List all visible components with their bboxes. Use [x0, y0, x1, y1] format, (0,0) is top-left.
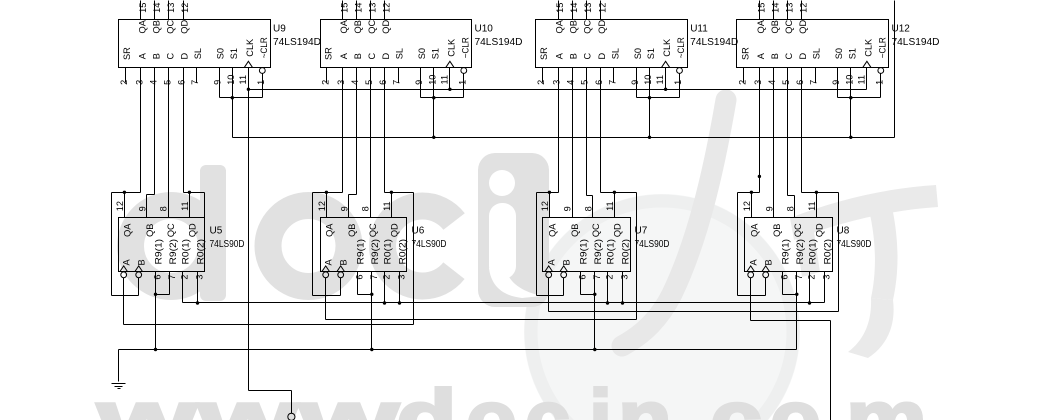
junction U10.S1: [432, 136, 435, 139]
svg-text:74LS194D: 74LS194D: [273, 37, 321, 48]
U8 A input edge wedge: [747, 266, 755, 272]
svg-text:B: B: [137, 259, 147, 265]
svg-text:1: 1: [673, 80, 683, 85]
svg-text:QD: QD: [389, 223, 399, 237]
wire U11.D down: [600, 68, 602, 193]
U7 A clock input wire down: [548, 278, 550, 312]
U6 A input bubble: [323, 272, 329, 278]
svg-text:QB: QB: [347, 224, 357, 237]
U6 pin 12 stub: [326, 193, 328, 218]
svg-text:SR: SR: [323, 47, 333, 60]
U10 CLK edge wedge: [446, 61, 454, 67]
wire QD line: [184, 192, 205, 194]
svg-text:QD: QD: [381, 20, 391, 34]
svg-text:A: A: [756, 52, 766, 59]
U6 B input edge wedge: [337, 266, 345, 272]
U9 junction S1/tie: [231, 96, 234, 99]
svg-text:o: o: [770, 373, 821, 420]
wire U12.D down: [801, 68, 803, 193]
svg-text:SR: SR: [122, 47, 132, 60]
U11 body: [536, 20, 688, 68]
svg-text:C: C: [583, 52, 593, 59]
svg-text:QA: QA: [749, 223, 759, 237]
U9 pin 12 QD stub: [183, 1, 185, 20]
svg-text:U9: U9: [273, 24, 286, 35]
svg-text:U5: U5: [210, 226, 223, 237]
U10 S1 pin 10 wire: [433, 68, 435, 138]
svg-text:7: 7: [607, 80, 617, 85]
svg-text:2: 2: [180, 275, 190, 280]
U6 A clock input wire down: [325, 278, 327, 320]
wire to B input: [112, 295, 139, 297]
svg-text:6: 6: [355, 275, 365, 280]
U11 SL pin 7 stub: [613, 68, 615, 83]
svg-text:S1: S1: [430, 48, 440, 59]
junction U5 R9 tie: [154, 293, 157, 296]
svg-text:74LS90D: 74LS90D: [412, 239, 447, 250]
svg-text:S0: S0: [834, 48, 844, 59]
wire R9 bus: [119, 349, 797, 351]
svg-text:R9(2): R9(2): [593, 239, 603, 265]
svg-text:QB: QB: [569, 20, 579, 33]
ground symbol: [112, 383, 126, 385]
U10 SL pin 7 stub: [398, 68, 400, 83]
U5 R0(2) pin 3 stub: [197, 272, 199, 303]
junction U7 R9 tie: [593, 293, 596, 296]
svg-text:U11: U11: [690, 24, 708, 35]
U5 R0(1) pin 2 stub: [182, 272, 184, 303]
svg-text:SL: SL: [395, 48, 405, 59]
svg-text:R9(2): R9(2): [168, 239, 178, 265]
U12 S1 pin 10 wire: [850, 68, 852, 138]
wire QA line: [537, 192, 559, 194]
wire U10.D down: [384, 68, 386, 193]
U6 R0(1) pin 2 stub: [384, 272, 386, 303]
U9 SR pin 2 stub: [125, 68, 127, 83]
U9 CLK long wire down to clock node: [248, 68, 250, 391]
svg-text:~CLR: ~CLR: [877, 37, 887, 58]
wire R0 bus: [183, 302, 825, 304]
U7 R0(2) pin 3 stub: [622, 272, 624, 303]
svg-text:QC: QC: [583, 20, 593, 34]
junction U7 R9 at bus: [593, 348, 596, 351]
U11 pin 14 QB stub: [572, 1, 574, 20]
wire U12.C down: [787, 68, 789, 196]
svg-text:2: 2: [737, 80, 747, 85]
U10 ~CLR bubble: [461, 68, 467, 74]
junction U8 pin 11: [815, 191, 818, 194]
U12 pin 12 QD stub: [801, 1, 803, 20]
svg-text:7: 7: [809, 80, 819, 85]
wire QC jog: [788, 195, 795, 197]
U7 body: [543, 218, 631, 272]
wire U9.D down: [183, 68, 185, 193]
svg-text:~CLR: ~CLR: [259, 37, 269, 58]
svg-text:QB: QB: [145, 224, 155, 237]
svg-text:B: B: [562, 259, 572, 265]
wire QC jog: [587, 195, 593, 197]
svg-text:R0(1): R0(1): [808, 239, 818, 265]
U7 pin 12 stub: [549, 193, 551, 218]
svg-text:B: B: [770, 53, 780, 59]
svg-text:CLK: CLK: [446, 38, 456, 57]
wire cascade U7.A to U8.QD: [549, 311, 839, 313]
svg-text:R0(1): R0(1): [606, 239, 616, 265]
svg-text:7: 7: [369, 275, 379, 280]
wire U10.B down: [356, 68, 358, 195]
U6 R9 tie wire: [358, 294, 372, 296]
U8 R9(2) pin 7 stub: [796, 272, 798, 295]
svg-text:11: 11: [655, 75, 665, 85]
U5 B input wire: [138, 278, 140, 296]
svg-text:7: 7: [392, 80, 402, 85]
junction U5 pin 11: [188, 191, 191, 194]
svg-text:R9(1): R9(1): [579, 239, 589, 265]
svg-text:9: 9: [137, 206, 147, 211]
wire to B input: [537, 295, 564, 297]
svg-text:~CLR: ~CLR: [676, 37, 686, 58]
U11 SR pin 2 stub: [542, 68, 544, 83]
U8 R9 tie wire: [783, 294, 797, 296]
svg-text:QC: QC: [367, 20, 377, 34]
svg-text:9: 9: [213, 80, 223, 85]
svg-text:13: 13: [785, 3, 795, 13]
svg-text:QD: QD: [597, 20, 607, 34]
svg-text:5: 5: [163, 80, 173, 85]
U10 pin 12 QD stub: [384, 1, 386, 20]
svg-text:B: B: [339, 259, 349, 265]
svg-text:U10: U10: [475, 24, 494, 35]
wire U9.B down: [154, 68, 156, 195]
U9 CLK edge wedge: [244, 61, 252, 67]
U10 CLK pin 11 wire: [449, 68, 451, 90]
svg-text:3: 3: [822, 275, 832, 280]
svg-text:7: 7: [794, 275, 804, 280]
U12 pin 14 QB stub: [773, 1, 775, 20]
wire U11.C down: [586, 68, 588, 196]
svg-text:8: 8: [361, 206, 371, 211]
svg-text:C: C: [367, 52, 377, 59]
svg-text:CLK: CLK: [245, 38, 255, 57]
U11 S0 pin 9 wire: [636, 68, 638, 98]
svg-text:12: 12: [799, 3, 809, 13]
wire down to ground: [118, 350, 120, 382]
svg-text:QA: QA: [122, 223, 132, 237]
U5 A input edge wedge: [120, 266, 128, 272]
U8 A input bubble: [748, 272, 754, 278]
U5 B input bubble: [136, 272, 142, 278]
wire U9.A down: [140, 68, 142, 193]
U6 R0(2) pin 3 stub: [399, 272, 401, 303]
U5 body: [119, 218, 205, 272]
wire U6.QD down right side: [413, 193, 415, 325]
U8 R0(1) pin 2 stub: [809, 272, 811, 303]
junction U6 R9 at bus: [370, 348, 373, 351]
U9 S0/S1/~CLR tie wire: [220, 97, 263, 99]
svg-text:SR: SR: [740, 47, 750, 60]
wire U11.B to U7 pin 9: [572, 68, 574, 218]
svg-text:4: 4: [350, 80, 360, 85]
U12 SR pin 2 stub: [743, 68, 745, 83]
svg-text:QB: QB: [570, 224, 580, 237]
U8 R0(2) pin 3 stub: [824, 272, 826, 303]
U12 pin 13 QC stub: [787, 1, 789, 20]
wire clock down to terminal: [291, 391, 293, 414]
junction U10.CLK: [448, 88, 451, 91]
U11 pin 13 QC stub: [586, 1, 588, 20]
wire QA to B down left side: [111, 193, 113, 296]
svg-text:7: 7: [190, 80, 200, 85]
svg-text:8: 8: [159, 206, 169, 211]
U5 pin 9 stub: [146, 195, 148, 218]
U7 pin 8 stub: [592, 196, 594, 218]
U7 R9(2) pin 7 stub: [594, 272, 596, 295]
svg-text:~CLR: ~CLR: [460, 37, 470, 58]
U11 S1 pin 10 wire: [649, 68, 651, 138]
U6 body: [321, 218, 407, 272]
svg-text:R0(1): R0(1): [181, 239, 191, 265]
svg-text:11: 11: [605, 201, 615, 211]
svg-text:3: 3: [552, 80, 562, 85]
junction on U12.A wire: [758, 175, 761, 178]
wire U8.QD down right side: [838, 193, 840, 312]
U6 pin 9 stub: [348, 195, 350, 218]
U12 ~CLR pin 1 wire: [880, 74, 882, 98]
junction U6 pin 11: [390, 191, 393, 194]
U9 ~CLR pin 1 wire: [262, 74, 264, 98]
svg-text:R9(1): R9(1): [356, 239, 366, 265]
wire S1 feedback riser to top edge: [894, 1, 896, 138]
U7 B input wire: [563, 278, 565, 296]
svg-text:B: B: [569, 53, 579, 59]
junction U5 R0(2): [196, 301, 199, 304]
U5 B input edge wedge: [135, 266, 143, 272]
U8 B input wire: [765, 278, 767, 296]
svg-text:S1: S1: [646, 48, 656, 59]
svg-text:QC: QC: [166, 20, 176, 34]
U5 pin 11 stub: [189, 193, 191, 218]
wire cascade U5.A to U6.QD: [124, 324, 414, 326]
U12 S0/S1/~CLR tie wire: [838, 97, 881, 99]
svg-text:QC: QC: [368, 223, 378, 237]
U9 S1 pin 10 wire: [232, 68, 234, 138]
U10 S0 pin 9 wire: [420, 68, 422, 98]
wire U7.QD down right side: [636, 193, 638, 320]
svg-text:9: 9: [630, 80, 640, 85]
svg-text:A: A: [137, 52, 147, 59]
wire U8 clock down off page: [830, 321, 832, 420]
svg-text:QB: QB: [772, 224, 782, 237]
U11 junction S1/tie: [648, 96, 651, 99]
svg-text:QD: QD: [180, 20, 190, 34]
svg-text:2: 2: [605, 275, 615, 280]
svg-text:R0(2): R0(2): [621, 239, 631, 265]
U6 B input wire: [340, 278, 342, 296]
U11 S0/S1/~CLR tie wire: [637, 97, 680, 99]
svg-text:1: 1: [874, 80, 884, 85]
svg-text:QC: QC: [784, 20, 794, 34]
svg-text:QD: QD: [798, 20, 808, 34]
svg-text:A: A: [749, 258, 759, 265]
svg-text:11: 11: [439, 75, 449, 85]
U8 body: [745, 218, 833, 272]
U8 pin 12 stub: [751, 193, 753, 218]
svg-text:SL: SL: [610, 48, 620, 59]
U12 SL pin 7 stub: [815, 68, 817, 83]
svg-text:c: c: [525, 373, 570, 420]
svg-text:R9(1): R9(1): [154, 239, 164, 265]
svg-text:QC: QC: [166, 223, 176, 237]
U9 SL pin 7 stub: [196, 68, 198, 83]
wire QD line: [601, 192, 637, 194]
junction U5 pin 12: [123, 191, 126, 194]
wire QD line: [802, 192, 839, 194]
wire QA line: [112, 192, 141, 194]
U11 ~CLR pin 1 wire: [679, 74, 681, 98]
U8 pin 11 stub: [816, 193, 818, 218]
junction U11.CLK: [664, 88, 667, 91]
svg-text:12: 12: [540, 201, 550, 211]
U8 R9(1) pin 6 stub: [782, 272, 784, 295]
svg-text:12: 12: [317, 201, 327, 211]
svg-text:74LS90D: 74LS90D: [210, 239, 245, 250]
U8 A clock input wire down: [750, 278, 752, 321]
svg-text:C: C: [166, 52, 176, 59]
svg-text:74LS194D: 74LS194D: [475, 37, 523, 48]
svg-text:12: 12: [180, 3, 190, 13]
svg-text:QB: QB: [770, 20, 780, 33]
wire CLK bus: [249, 89, 867, 91]
U7 B input edge wedge: [560, 266, 568, 272]
svg-text:m: m: [846, 373, 927, 420]
svg-text:QD: QD: [612, 223, 622, 237]
svg-text:15: 15: [138, 3, 148, 13]
wire QB jog: [349, 194, 357, 196]
wire S1 bus: [233, 137, 895, 139]
svg-text:S0: S0: [216, 48, 226, 59]
svg-text:3: 3: [397, 275, 407, 280]
junction U8 R9 tie: [795, 293, 798, 296]
svg-text:10: 10: [427, 75, 437, 85]
clock terminal circle: [288, 413, 295, 420]
wire U10.C to U6 pin 8: [370, 68, 372, 218]
wire QD line: [385, 192, 414, 194]
svg-text:B: B: [764, 259, 774, 265]
svg-text:2: 2: [807, 275, 817, 280]
svg-text:5: 5: [781, 80, 791, 85]
U12 CLK edge wedge: [863, 61, 871, 67]
svg-text:9: 9: [339, 206, 349, 211]
svg-text:QC: QC: [793, 223, 803, 237]
svg-text:7: 7: [167, 275, 177, 280]
svg-text:5: 5: [364, 80, 374, 85]
U11 CLK pin 11 wire: [665, 68, 667, 90]
svg-text:n: n: [618, 373, 672, 420]
svg-text:QA: QA: [547, 223, 557, 237]
U11 pin 15 QA stub: [558, 1, 560, 20]
svg-text:14: 14: [771, 3, 781, 13]
svg-text:11: 11: [238, 75, 248, 85]
svg-text:QD: QD: [187, 223, 197, 237]
svg-text:10: 10: [844, 75, 854, 85]
svg-text:1: 1: [256, 80, 266, 85]
svg-text:13: 13: [583, 3, 593, 13]
U9 pin 13 QC stub: [168, 1, 170, 20]
svg-text:QA: QA: [137, 19, 147, 33]
U7 pin 11 stub: [614, 193, 616, 218]
svg-text:d: d: [396, 373, 457, 420]
svg-text:10: 10: [643, 75, 653, 85]
junction U6 R0(1): [383, 301, 386, 304]
svg-text:6: 6: [578, 275, 588, 280]
svg-text:74LS194D: 74LS194D: [690, 37, 738, 48]
U10 SR pin 2 stub: [326, 68, 328, 83]
svg-text:9: 9: [764, 206, 774, 211]
svg-text:9: 9: [831, 80, 841, 85]
svg-text:2: 2: [119, 80, 129, 85]
U5 R9(1) pin 6 stub: [155, 272, 157, 295]
U10 pin 14 QB stub: [356, 1, 358, 20]
U11 CLK edge wedge: [662, 61, 670, 67]
svg-text:14: 14: [152, 3, 162, 13]
wire U8 clock line: [751, 320, 831, 322]
U9 ~CLR bubble: [259, 68, 265, 74]
svg-text:QA: QA: [555, 19, 565, 33]
U5 A clock input wire down: [123, 278, 125, 325]
wire U8 R9 down to bus: [796, 295, 798, 350]
U6 B input bubble: [338, 272, 344, 278]
svg-text:B: B: [152, 53, 162, 59]
U7 R9 tie wire: [581, 294, 595, 296]
junction U6 R9 tie: [370, 293, 373, 296]
svg-text:S0: S0: [417, 48, 427, 59]
U9 pin 14 QB stub: [154, 1, 156, 20]
U12 pin 15 QA stub: [759, 1, 761, 20]
wire QB jog: [147, 194, 155, 196]
svg-text:QB: QB: [353, 20, 363, 33]
svg-text:6: 6: [177, 80, 187, 85]
junction U6 R0(2): [398, 301, 401, 304]
junction U9.CLK: [247, 88, 250, 91]
svg-text:11: 11: [180, 201, 190, 211]
svg-text:S1: S1: [847, 48, 857, 59]
junction U7 R0(2): [621, 301, 624, 304]
svg-text:2: 2: [536, 80, 546, 85]
svg-text:R0(1): R0(1): [383, 239, 393, 265]
svg-text:3: 3: [336, 80, 346, 85]
U7 A input bubble: [546, 272, 552, 278]
U8 pin 8 stub: [794, 196, 796, 218]
svg-text:4: 4: [149, 80, 159, 85]
svg-text:12: 12: [382, 3, 392, 13]
wire QA line: [313, 192, 343, 194]
svg-text:9: 9: [562, 206, 572, 211]
svg-text:3: 3: [195, 275, 205, 280]
svg-text:QD: QD: [814, 223, 824, 237]
U5 A input bubble: [121, 272, 127, 278]
wire QA to B down left side: [536, 193, 538, 296]
svg-text:CLK: CLK: [662, 38, 672, 57]
svg-text:R9(2): R9(2): [370, 239, 380, 265]
svg-text:D: D: [597, 52, 607, 59]
svg-text:7: 7: [592, 275, 602, 280]
svg-text:R9(2): R9(2): [795, 239, 805, 265]
svg-text:QC: QC: [591, 223, 601, 237]
svg-text:15: 15: [555, 3, 565, 13]
svg-text:15: 15: [339, 3, 349, 13]
wire QA to B down left side: [312, 193, 314, 296]
svg-text:14: 14: [354, 3, 364, 13]
